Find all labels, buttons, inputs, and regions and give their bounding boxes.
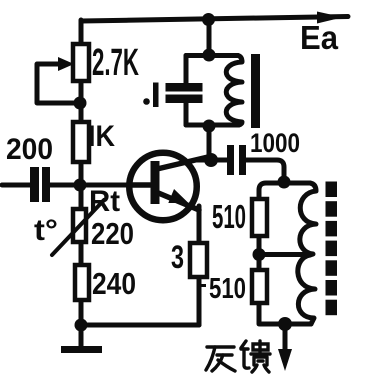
svg-text:220: 220 — [91, 216, 134, 251]
svg-text:1000: 1000 — [250, 128, 300, 158]
svg-text:Ea: Ea — [300, 19, 339, 56]
svg-text:Rt: Rt — [89, 185, 120, 218]
svg-text:240: 240 — [92, 266, 136, 301]
svg-text:200: 200 — [6, 133, 53, 166]
svg-text:3: 3 — [171, 239, 184, 275]
svg-text:510: 510 — [212, 198, 246, 235]
svg-text:t°: t° — [34, 214, 58, 247]
svg-text:510: 510 — [209, 273, 246, 305]
svg-text:IK: IK — [88, 120, 115, 153]
svg-text:2.7K: 2.7K — [92, 42, 139, 84]
